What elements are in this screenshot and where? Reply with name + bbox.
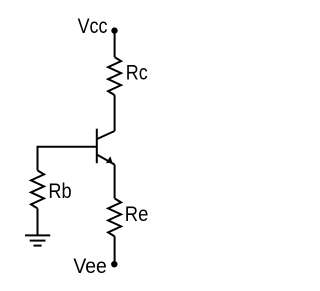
svg-text:Vee: Vee <box>73 254 106 278</box>
svg-text:Rb: Rb <box>48 179 71 203</box>
svg-text:Re: Re <box>125 202 149 226</box>
svg-text:Vcc: Vcc <box>78 14 108 38</box>
svg-text:Rc: Rc <box>126 60 148 84</box>
